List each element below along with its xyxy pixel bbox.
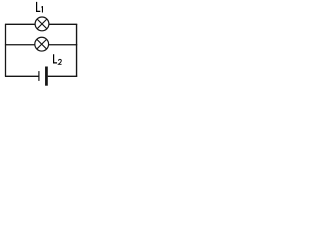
wire top branch right segment <box>49 23 77 25</box>
label L2 <box>54 54 62 64</box>
battery B1 <box>39 67 48 86</box>
wire middle branch right segment <box>49 44 78 46</box>
wire top branch left segment <box>5 23 35 25</box>
label L1 <box>37 2 43 13</box>
wire bottom right segment <box>48 75 78 77</box>
wire middle branch left segment <box>5 44 35 46</box>
wire left vertical <box>5 24 7 76</box>
wire bottom left segment <box>5 75 39 77</box>
wire right vertical <box>76 24 78 76</box>
lamp L1 <box>35 17 49 31</box>
lamp L2 <box>35 37 49 51</box>
